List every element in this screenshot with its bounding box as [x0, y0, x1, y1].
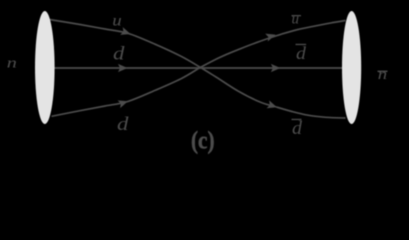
svg-text:n: n [7, 54, 17, 71]
arrowhead d line bottom-left [118, 97, 130, 108]
antineutron blob right [342, 11, 361, 124]
arrowhead dbar line bottom-right [267, 100, 279, 111]
arrowhead ubar line top-right [265, 31, 277, 42]
overbar of dbar bottom [292, 119, 302, 120]
overbar of dbar middle [296, 44, 307, 45]
svg-text:d: d [296, 44, 306, 64]
svg-text:u: u [112, 11, 122, 29]
svg-text:u: u [292, 12, 300, 28]
arrowhead u line left [120, 27, 132, 38]
wire d-quark middle line [50, 67, 344, 69]
svg-text:d: d [113, 42, 125, 64]
overbar of ubar [292, 15, 302, 16]
svg-text:n: n [378, 66, 387, 83]
neutron blob left [35, 11, 55, 124]
arrowhead d middle line left [118, 64, 128, 72]
svg-text:d: d [292, 119, 302, 139]
arrowhead dbar middle line right [271, 64, 281, 72]
overbar of nbar [378, 71, 388, 72]
wire d-quark line (bottom-left to top-right) [52, 21, 346, 117]
svg-text:(c): (c) [191, 127, 215, 154]
svg-text:d: d [117, 113, 129, 135]
wire u-quark line (top-left to bottom-right) [50, 20, 346, 119]
